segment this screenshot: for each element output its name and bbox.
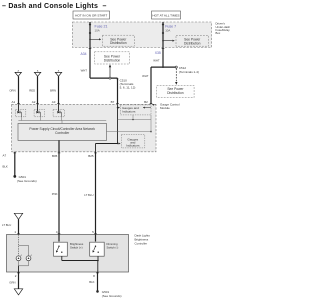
header box HOT AT ALL TIMES [152,11,181,19]
pin tick A7 [14,152,17,154]
bulb bottoms rejoin [18,261,20,266]
bulb branch loop [19,244,29,246]
lamp box 1 [15,104,25,117]
svg-text:Module: Module [160,106,170,110]
pin tick A34 [89,47,92,49]
svg-text:B25: B25 [88,154,94,158]
wire fuse7 vertical [162,22,164,48]
svg-text:10A: 10A [165,29,170,33]
svg-text:10A: 10A [95,29,100,33]
wire B7 drop [117,78,119,104]
svg-text:LT BLU: LT BLU [84,193,93,197]
lamp box 2 [34,104,44,117]
internal bus [18,120,106,122]
svg-text:5, 6, 11, 12): 5, 6, 11, 12) [120,86,136,90]
svg-text:Distribution: Distribution [167,91,184,95]
lamp box 3 [53,104,64,117]
svg-text:HOT AT ALL TIMES: HOT AT ALL TIMES [152,13,179,17]
see power distribution box 3 [95,52,130,64]
wire fuse21 vertical [89,22,91,48]
ground wire A7 [14,152,16,176]
svg-text:Indicators: Indicators [122,109,136,113]
svg-text:Controller: Controller [135,242,148,246]
wire from triangle 3 [58,76,60,104]
wire B7 continue down [117,104,119,143]
wire horizontal to B7 [90,77,118,79]
internal dashed wire pin1 [18,235,20,256]
pin tick 1 [17,233,20,235]
pin tick B25 [94,152,97,154]
pin tick X35 [162,47,165,49]
svg-text:B2: B2 [144,100,148,104]
svg-text:B05: B05 [52,154,58,158]
off-page triangle 5 [14,289,22,295]
C510 label [120,78,136,89]
label Driver's Under-dash Fuse/Relay Box [216,22,231,36]
gauges and indicators box A [121,105,152,115]
svg-text:– Dash and Console Lights –: – Dash and Console Lights – [2,3,107,10]
svg-text:B7: B7 [111,100,115,104]
gauges and indicators box B [121,135,145,148]
connector circle C510 branch [109,77,111,79]
pin tick 4 [58,233,61,235]
arrow to see power distribution 2 [162,40,164,42]
svg-text:ORN: ORN [9,88,15,92]
svg-text:GRN: GRN [9,280,15,284]
off-page triangle 3 [55,70,61,77]
fuse/relay box (dashed) [73,22,212,48]
svg-text:X35: X35 [155,51,161,55]
svg-text:Distribution: Distribution [184,41,201,45]
svg-text:Box: Box [216,31,221,35]
wire from triangle 1 [18,76,20,104]
svg-text:Controller: Controller [55,131,70,135]
wire pin5 into switch [95,235,97,242]
dash lights brightness controller box [7,235,129,273]
pin tick A3 [57,103,60,105]
wire B25 long [95,152,97,235]
svg-text:A2: A2 [32,100,36,104]
drop B05 [58,140,60,151]
arrow into box B [117,143,118,144]
pin tick 8 [96,272,99,274]
svg-text:WHT: WHT [81,68,88,72]
pin tick 2 [17,272,20,274]
wire pin 2 down [18,272,20,289]
svg-text:Distribution: Distribution [110,41,127,45]
junction node [132,119,133,120]
svg-text:BLK: BLK [3,165,8,169]
svg-text:BLK: BLK [89,280,94,284]
power supply box [18,124,107,141]
see power distribution box 1 [102,35,134,46]
wire A34 down [89,48,91,79]
svg-text:BRN: BRN [50,88,56,92]
off-page triangle 1 [15,70,21,77]
arrow down into box 4 [175,66,177,68]
lamp drops to bus [20,117,22,121]
off-page triangle 2 [34,70,40,77]
svg-text:Indicators: Indicators [126,143,140,147]
brightness switch box [54,242,68,256]
svg-text:LT BLU: LT BLU [2,223,11,227]
svg-text:A1: A1 [12,100,16,104]
dimming switch label [107,242,119,250]
svg-text:A3: A3 [52,100,56,104]
junction [162,66,164,68]
bulb 1 [16,255,22,261]
pin tick A1 [17,103,20,105]
svg-text:Distribution: Distribution [104,58,121,62]
arrow B2 into box A [143,107,151,109]
wire X35 down [162,48,164,68]
C512 label [179,66,199,74]
wire pin4 into switch [58,235,60,242]
ground G501 bottom [96,290,99,293]
arrow up into box 3 [109,67,111,78]
pin tick B2 [150,103,153,105]
svg-text:(See Grounds): (See Grounds) [102,294,122,298]
gauge control module dashed box [12,104,157,152]
wire B5 long [58,152,60,235]
wire B2 drop [150,67,152,104]
wire box A drop [132,115,134,120]
arrow to see power distribution 1 [89,39,91,41]
off-page triangle 4 [14,213,22,219]
wire box A to right rail [118,119,152,121]
fuse F21 symbol [89,24,91,26]
arrow B7 into box A [117,107,118,108]
pin tick A2 [36,103,39,105]
wire jog left [151,66,176,68]
svg-text:Switch (+): Switch (+) [70,245,83,249]
ground G501 [13,175,16,178]
see power distribution box 2 [176,35,209,46]
wire from triangle 4 [18,219,20,234]
svg-text:(See Grounds): (See Grounds) [17,179,37,183]
svg-text:PNK: PNK [52,192,58,196]
see power distribution box 4 [157,86,194,98]
gauge control module label [153,103,180,110]
wire pin 8 down [97,272,99,291]
svg-text:A7: A7 [3,154,7,158]
svg-text:HOT IN ON OR START: HOT IN ON OR START [75,13,107,17]
svg-text:WHT: WHT [153,59,160,63]
wire from triangle 2 [37,76,39,104]
wire to B25 [96,143,118,145]
link power box to box B [107,131,152,133]
dimming switch box [90,242,105,256]
pin tick 5 [94,233,97,235]
fuse F7 symbol [162,24,164,26]
svg-text:A34: A34 [80,52,86,56]
bulb 2 [26,255,32,261]
svg-text:RED: RED [29,88,35,92]
pin tick B7 [116,103,119,105]
svg-text:WHT: WHT [142,74,149,78]
svg-text:(Terminals 1-4): (Terminals 1-4) [179,70,199,74]
switch commons [61,256,63,260]
pin tick B05 [58,152,61,154]
wire right rail down [150,115,152,133]
svg-text:Switch (-): Switch (-) [107,245,119,249]
controller label [135,234,151,246]
brightness switch label [70,242,84,250]
header box HOT IN ON OR START [73,11,110,19]
